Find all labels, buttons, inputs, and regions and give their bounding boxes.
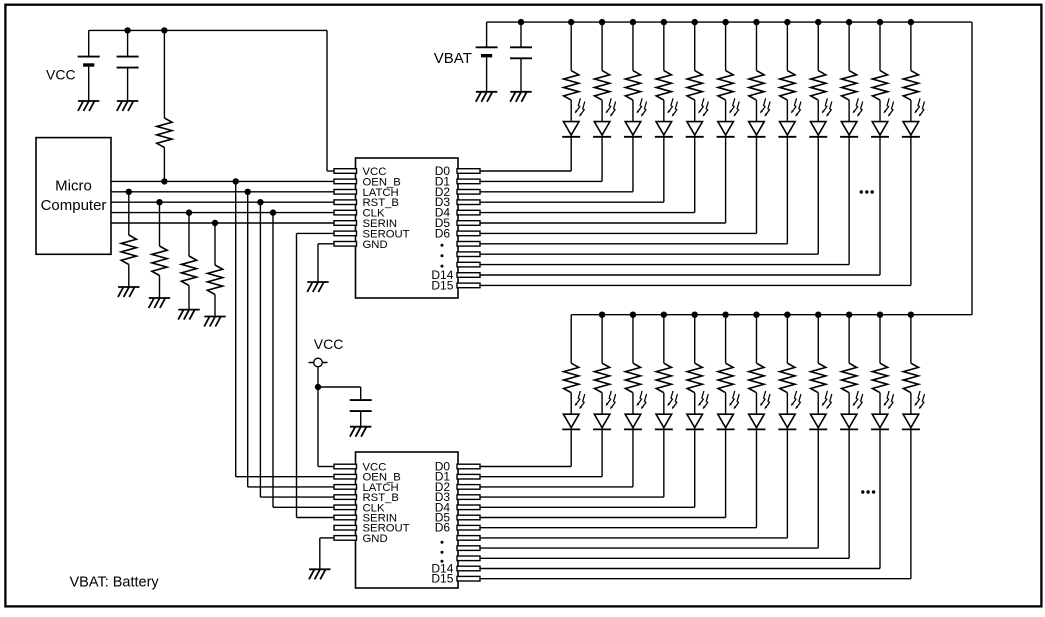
svg-text:GND: GND (363, 239, 388, 251)
svg-text:VBAT: Battery: VBAT: Battery (70, 574, 160, 590)
svg-text:Computer: Computer (41, 197, 107, 214)
svg-text:VCC: VCC (46, 67, 76, 83)
svg-text:Micro: Micro (55, 178, 92, 195)
svg-text:GND: GND (363, 533, 388, 545)
svg-text:D15: D15 (431, 572, 453, 586)
svg-text:D6: D6 (435, 226, 451, 240)
svg-text:VBAT: VBAT (434, 50, 472, 67)
svg-text:D6: D6 (435, 521, 451, 535)
svg-text:VCC: VCC (314, 336, 344, 352)
svg-text:D15: D15 (431, 278, 453, 292)
